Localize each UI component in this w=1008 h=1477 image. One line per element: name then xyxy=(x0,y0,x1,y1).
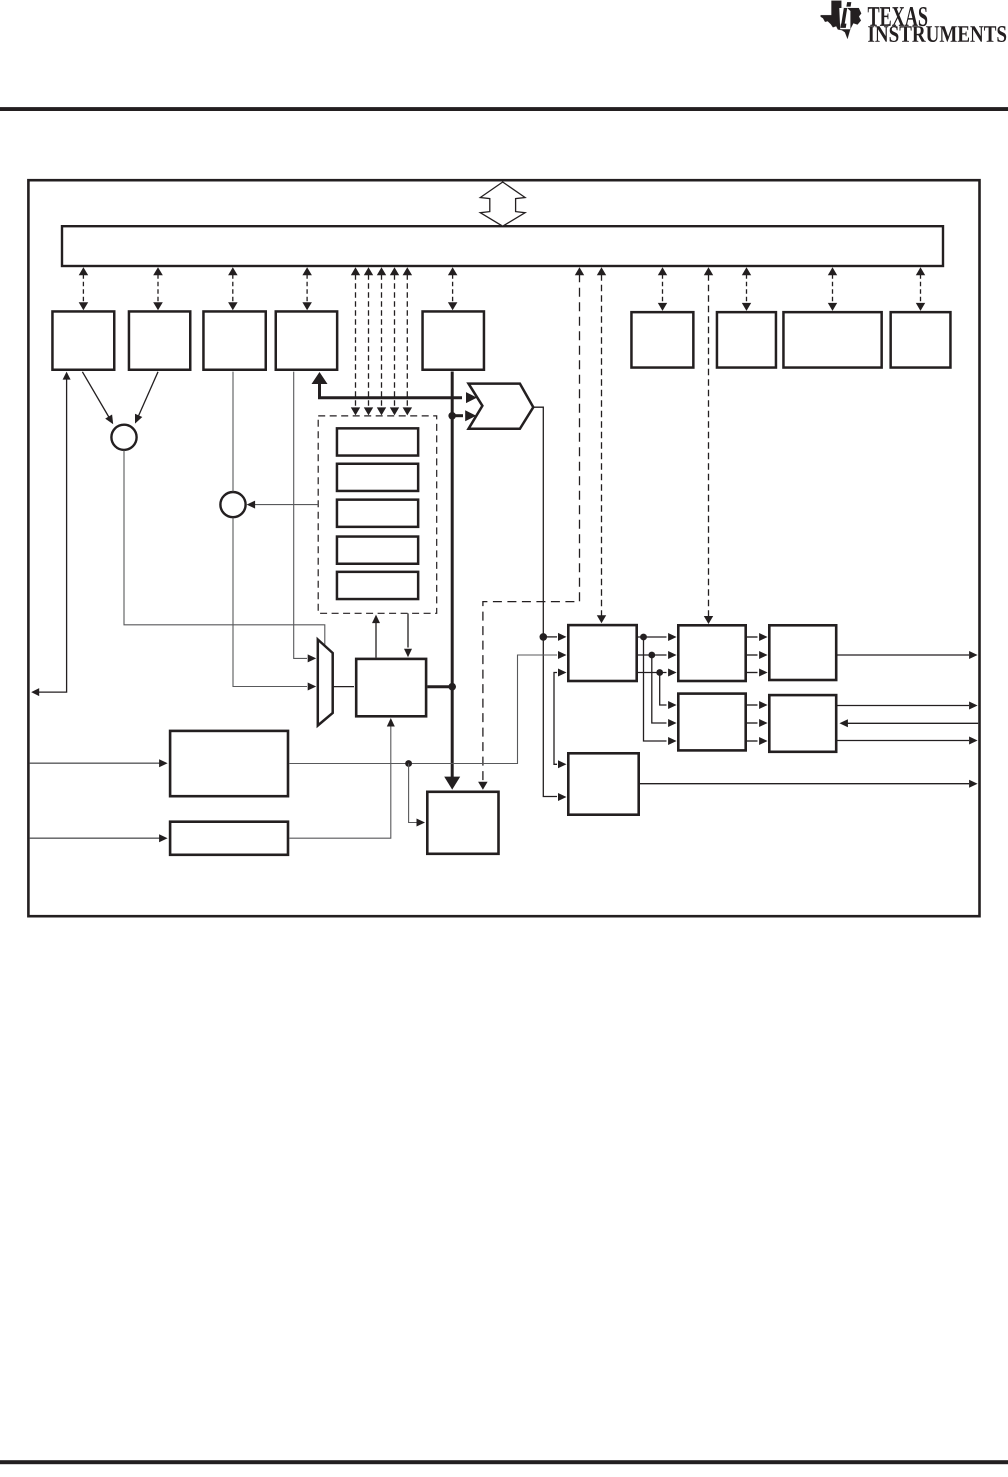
wire branch to box B left xyxy=(409,764,425,827)
chevron mux shape xyxy=(469,384,534,429)
register slot 4 xyxy=(337,537,418,564)
logo word TEXAS xyxy=(868,7,927,26)
box A1 (row1 left) xyxy=(52,311,114,369)
wire box L2 to box M bottom xyxy=(289,718,395,838)
logo Texas-map bug xyxy=(821,1,862,39)
wire C4 to C5 rail 2 xyxy=(747,719,768,727)
wire box A2 to circle N1 xyxy=(135,372,158,424)
register slot 5 xyxy=(337,572,418,599)
box C2 xyxy=(678,625,745,681)
wire C2 to C3 rail 1 xyxy=(747,633,768,641)
wire C1 to C2 rail 3 with branch to C4 xyxy=(638,669,677,710)
wire C1 to C2 rail 2 with branch to C4 xyxy=(638,651,677,727)
long dashed path bus to box B xyxy=(478,267,584,790)
box A5 xyxy=(423,311,484,369)
thick wire to box A4 bottom xyxy=(312,372,478,403)
wire border to C5 input xyxy=(839,719,978,727)
box B4 xyxy=(891,312,951,367)
box A4 xyxy=(276,311,337,369)
wire chevron branch to box C1 input 1 xyxy=(543,636,557,638)
junction dot on thick wire upper xyxy=(448,412,456,420)
junction dot on L1 output xyxy=(405,760,412,767)
dashed bus arrow cluster line 1 xyxy=(351,267,360,415)
memory bus bar xyxy=(62,226,943,266)
wire box A1 to circle N1 xyxy=(82,372,113,425)
diagram outer border xyxy=(28,180,979,916)
box B3 (wide) xyxy=(783,312,881,367)
box A2 xyxy=(129,311,190,369)
dashed bus double-arrow 8 xyxy=(828,267,837,311)
box C5 xyxy=(769,695,836,752)
dashed bus double-arrow 5 xyxy=(448,267,458,310)
wire C4 to C5 rail 1 xyxy=(747,701,768,709)
dashed bus double-arrow 3 xyxy=(228,267,238,310)
box C3 xyxy=(769,625,836,680)
wire C1 to C2 rail 1 with branch to C4 xyxy=(638,633,677,745)
box L1 xyxy=(170,731,288,796)
register slot 3 xyxy=(337,500,418,527)
box B (bottom middle) xyxy=(427,792,498,854)
dashed bus arrow cluster line 3 xyxy=(377,267,386,415)
wire chevron output xyxy=(533,407,557,796)
wire shared net C1-in3 / C6-in1 xyxy=(554,669,567,769)
thick vertical wire box A5 to box B xyxy=(444,372,460,790)
box B2 xyxy=(717,312,776,367)
wire C4 to C5 rail 3 xyxy=(747,737,768,745)
long dashed line bus to box C2 xyxy=(704,267,713,624)
dashed bus arrow cluster line 2 xyxy=(364,267,373,415)
register slot 1 xyxy=(337,428,418,455)
box C6 xyxy=(568,753,638,814)
page footer rule xyxy=(0,1460,1008,1464)
thick stub to chevron input 2 xyxy=(452,410,476,421)
junction dot on thick wire lower xyxy=(448,683,456,691)
wire register file to box M (down) xyxy=(404,613,412,657)
wire box A3 to circle N2 xyxy=(232,372,234,492)
mux trapezoid xyxy=(318,640,333,726)
box C1 xyxy=(568,625,636,681)
box L2 xyxy=(170,822,288,855)
bus-to-border hollow double arrow xyxy=(480,182,525,226)
thick wire box M output to junction xyxy=(427,685,452,688)
wire circle N2 to mux input 2 xyxy=(233,518,307,687)
dashed bus double-arrow 6 xyxy=(658,267,667,311)
page header rule xyxy=(0,107,1008,111)
wire mux output to box M xyxy=(333,686,354,688)
box B1 (row1 right) xyxy=(631,312,693,367)
dashed bus double-arrow 2 xyxy=(153,267,163,310)
wire C2 to C3 rail 3 xyxy=(747,669,768,677)
dashed bus arrow cluster line 4 xyxy=(390,267,399,415)
box C4 xyxy=(678,694,745,751)
wire C3 output to border xyxy=(838,651,978,659)
wire box L1 output to box C1 input 2 xyxy=(289,651,566,764)
register file dashed box xyxy=(318,416,437,613)
circle node N2 xyxy=(220,492,245,517)
dashed bus double-arrow 7 xyxy=(742,267,751,311)
wire register file to circle N2 xyxy=(249,504,318,506)
box M xyxy=(356,659,426,716)
wire C5 output 2 to border xyxy=(838,737,978,745)
logo word INSTRUMENTS xyxy=(868,26,1006,42)
junction dot on chevron output xyxy=(540,633,548,641)
wire box A4 to mux input 1 xyxy=(294,372,307,659)
wire box M to register file (up) xyxy=(372,615,380,658)
wire box A1 bottom to left border xyxy=(31,372,70,696)
wire C2 to C3 rail 2 xyxy=(747,651,768,659)
dashed bus double-arrow 4 xyxy=(302,267,312,310)
box A3 xyxy=(203,311,265,369)
dashed bus double-arrow 9 xyxy=(916,267,925,311)
long dashed line bus to box C1 xyxy=(597,267,606,623)
register slot 2 xyxy=(337,464,418,491)
dashed bus double-arrow 1 xyxy=(79,267,89,310)
wire border to box L2 xyxy=(30,834,168,842)
circle node N1 xyxy=(111,425,136,450)
wire circle N1 to mux top xyxy=(124,450,325,646)
wire C6 output to border xyxy=(640,780,978,788)
dashed bus arrow cluster line 5 xyxy=(403,267,413,415)
wire C5 output 1 to border xyxy=(838,702,978,710)
wire border to box L1 xyxy=(30,759,168,767)
